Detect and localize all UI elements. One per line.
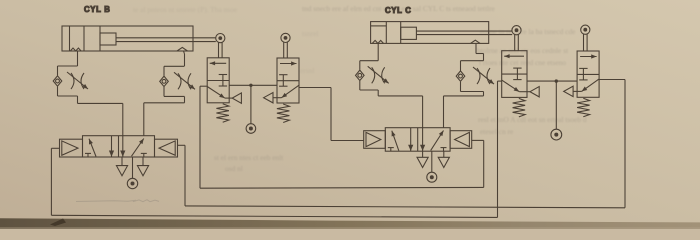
valve V3 lower flow path	[502, 80, 520, 92]
valve U1 5/2 body	[83, 136, 155, 157]
svg-text:resl et tnO A cdl eot sn ertea: resl et tnO A cdl eot sn erteal tsoeb d	[478, 115, 587, 124]
stem of valve V1	[218, 43, 220, 58]
cylinder CYL C rod	[416, 30, 512, 32]
cylinder CYL B piston	[83, 26, 85, 51]
exhaust of valve V4	[564, 86, 573, 96]
cylinder CYL B cap line	[69, 26, 71, 51]
exhaust of valve V1	[232, 93, 241, 103]
valve V4 3/2 body	[577, 51, 599, 97]
cylinder CYL C rod block	[401, 27, 417, 39]
valve V2 lower flow path	[282, 85, 300, 98]
valve V3 upper flow arrow	[504, 55, 524, 57]
exhaust E3 (valve U2 left)	[422, 151, 424, 157]
wire CYL B rod port to FC2	[184, 51, 185, 54]
svg-text:CYL B: CYL B	[84, 5, 111, 14]
pilot Z3 (valve U2 left)	[364, 131, 386, 149]
pilot Z1 (valve U1 left)	[60, 139, 83, 157]
source P3 (valve U2 supply)	[431, 151, 433, 172]
spring of valve V2	[277, 104, 290, 123]
cylinder CYL B port notch left	[70, 48, 81, 51]
svg-text:tsnrel: tsnrel	[302, 29, 318, 38]
node J1	[249, 84, 252, 87]
valve V4 blocked port marks	[582, 68, 584, 80]
valve V1 upper flow arrow	[210, 62, 227, 64]
valve V2 3/2 body	[277, 58, 299, 103]
cylinder CYL B rod block	[100, 33, 116, 45]
spring of valve V3	[513, 98, 526, 117]
roller actuator of valve V3	[512, 26, 521, 35]
valve V3 3/2 body	[502, 51, 527, 98]
roller actuator of valve V1	[216, 34, 225, 43]
roller actuator of valve V2	[281, 33, 290, 42]
cylinder CYL C port notch right	[471, 40, 481, 43]
svg-text:ersnl: ersnl	[300, 66, 314, 75]
wire CYL C rod port to FC4	[475, 43, 477, 53]
svg-text:st el ern ntes ct eeb enlt: st el ern ntes ct eeb enlt	[214, 153, 284, 162]
wire FC1 to valve-B port 4	[77, 96, 79, 103]
valve V2 blocked port marks	[282, 75, 284, 87]
cylinder CYL B body	[62, 26, 193, 51]
valve V1 blocked port marks	[222, 75, 224, 87]
valve V1 lower flow path	[207, 87, 225, 99]
svg-text:CYL C: CYL C	[385, 6, 412, 15]
wire FC4 to valve-C port 2	[483, 92, 485, 96]
wire V4 output to pilot Z2	[599, 79, 625, 81]
exhaust E4 (valve U2 right)	[443, 151, 445, 157]
flow control FC3 bypass+throttle	[360, 60, 378, 62]
exhaust of valve V2	[264, 93, 273, 103]
cylinder CYL C piston	[400, 22, 402, 44]
exhaust of valve V3	[530, 87, 539, 97]
wire CYL B cap port to FC1	[77, 51, 79, 66]
svg-text:t rtoes nte cet reed cne etsen: t rtoes nte cet reed cne etseno	[479, 58, 566, 67]
valve V3 blocked port marks	[516, 68, 518, 80]
cylinder CYL C cap line	[385, 22, 387, 44]
source P4 (V3/V4 supply)	[555, 81, 557, 129]
wire V1 output to pilot Z4	[200, 85, 207, 87]
cylinder CYL B port notch right	[177, 47, 188, 51]
svg-text:osd nl: osd nl	[225, 164, 243, 173]
valve V2 upper flow arrow	[280, 63, 297, 65]
valve U2 5/2 body	[385, 128, 450, 152]
roller actuator of valve V4	[581, 25, 590, 34]
wire V2 output to pilot Z3	[299, 87, 331, 89]
wire V3 output to pilot Z1	[498, 80, 502, 82]
exhaust E1 (valve U1 left)	[121, 157, 123, 166]
source P1 (valve U1 supply)	[132, 157, 134, 178]
spring of valve V4	[577, 98, 590, 117]
spring of valve V1	[216, 104, 229, 123]
cylinder CYL C port notch left	[372, 40, 383, 43]
cylinder CYL C body	[371, 22, 489, 44]
wire supply V3-V4	[527, 80, 577, 82]
stem of valve V3	[514, 35, 516, 51]
flow control FC2 bypass+throttle	[164, 65, 185, 67]
pilot Z2 (valve U1 right)	[155, 139, 178, 157]
stem of valve V2	[283, 42, 285, 58]
valve V4 lower flow path	[582, 79, 600, 92]
svg-text:te al pnteos nt smrete (P). Tb: te al pnteos nt smrete (P). Tba nsoe	[133, 5, 238, 14]
exhaust E2 (valve U1 right)	[142, 157, 144, 166]
wire CYL C cap port to FC3	[377, 43, 379, 60]
cylinder CYL B rod	[116, 37, 216, 39]
pilot Z4 (valve U2 right)	[450, 131, 472, 149]
flow control FC1 bypass+throttle	[58, 65, 78, 67]
valve V4 upper flow arrow	[580, 56, 597, 58]
photo artifact: dark arrow bottom-left	[50, 219, 66, 227]
node J2	[555, 79, 558, 82]
flow control FC4 bypass+throttle	[461, 60, 484, 62]
wire FC2 to valve-B port 2	[184, 97, 186, 103]
valve V1 3/2 body	[207, 58, 229, 103]
wire supply V1-V2	[229, 84, 277, 86]
source P2 (V1/V2 supply)	[250, 85, 252, 123]
wire FC3 to valve-C port 4	[377, 90, 379, 96]
stem of valve V4	[583, 34, 585, 51]
